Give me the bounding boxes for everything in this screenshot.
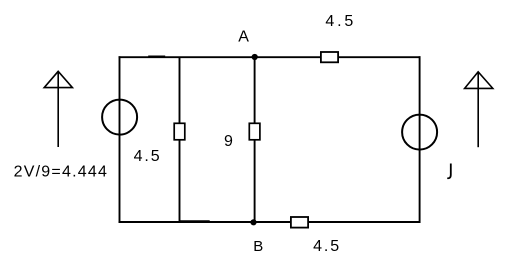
wire left branch <box>119 56 121 223</box>
svg-text:9: 9 <box>224 133 233 150</box>
svg-text:2V/9=4.444: 2V/9=4.444 <box>14 164 109 181</box>
resistor R1 4.5 (middle-left branch) <box>174 123 185 140</box>
resistor R4 4.5 (bottom) <box>291 217 308 228</box>
svg-text:4.5: 4.5 <box>325 13 356 30</box>
current source I1 circle (left) <box>102 100 137 135</box>
wire overlap segment on top rail <box>148 55 165 57</box>
label J (right source) <box>447 164 451 179</box>
wire middle branch (A to B) <box>254 57 256 222</box>
current source J circle (right) <box>402 115 437 150</box>
svg-text:A: A <box>238 29 249 46</box>
svg-text:4.5: 4.5 <box>313 238 341 255</box>
resistor R3 4.5 (top) <box>321 52 338 62</box>
wire middle-left branch <box>179 57 181 222</box>
node A junction dot <box>252 54 258 60</box>
wire right branch <box>419 56 421 223</box>
wire bottom (node B rail) <box>119 221 421 223</box>
arrow I1 direction (left) <box>44 71 72 147</box>
arrow J direction (right) <box>465 72 493 147</box>
svg-text:4.5: 4.5 <box>134 148 162 165</box>
node B junction dot <box>250 219 256 225</box>
svg-text:B: B <box>253 238 263 255</box>
wire top (node A rail) <box>119 56 421 58</box>
resistor R2 9 (middle branch) <box>249 123 260 140</box>
wire overlap segment on bottom rail <box>179 220 210 222</box>
